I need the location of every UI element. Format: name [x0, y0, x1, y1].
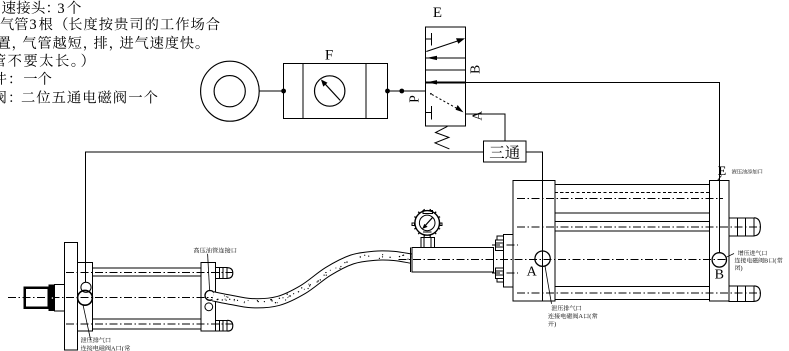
rear end block inner line: [84, 263, 86, 283]
left cylinder bottom tie-rod centerline: [66, 323, 233, 325]
wire tee to left cylinder rear port: [85, 152, 483, 282]
hose stipple texture: [217, 254, 409, 303]
svg-text:A: A: [470, 111, 485, 121]
wire F to valve port P: [388, 90, 426, 92]
left cylinder centerline: [8, 297, 225, 299]
pump gauge top cap: [423, 211, 433, 214]
pump gauge needle head: [422, 224, 427, 229]
tiny label A port line2: [548, 313, 597, 320]
F gauge needle arrowhead: [321, 79, 328, 86]
rear port main circle: [78, 290, 93, 305]
left cylinder lower tie-rod end fitting: [215, 320, 227, 331]
right cylinder body bottom: [555, 298, 710, 300]
hydraulic hose outline: [213, 255, 411, 303]
flange top bolt: [496, 240, 504, 251]
compressor inner circle: [214, 76, 245, 107]
valve dashed diagonal flow arrow: [432, 94, 460, 109]
tee junction box: [483, 141, 526, 162]
svg-text:A: A: [111, 345, 116, 351]
left cylinder rod boss (solid): [49, 285, 55, 311]
F internal divider left: [302, 64, 304, 119]
wire tee to right cylinder port A: [526, 152, 542, 180]
valve top diagonal arrowhead: [456, 38, 465, 44]
valve bottom flow left arrowhead: [427, 80, 437, 84]
pump gauge needle: [425, 217, 433, 226]
filter-regulator unit F outline: [283, 64, 387, 119]
valve top horizontal left arrowhead: [427, 56, 437, 60]
leader line port B to label: [726, 254, 734, 258]
booster pump body left cap: [409, 247, 411, 272]
junction dot on P line: [399, 89, 404, 94]
right cylinder left block inner line: [542, 180, 544, 301]
F internal divider right: [365, 64, 367, 119]
note text line 4: [0, 54, 5, 67]
svg-text:(: (: [774, 258, 776, 265]
svg-text:E: E: [433, 5, 442, 21]
tiny label high-pressure hose connection: [194, 247, 237, 253]
flange plate between pump and right cylinder: [503, 235, 513, 287]
tiny label hydraulic oil fill port: [732, 169, 763, 174]
pump gauge stem: [421, 238, 435, 248]
svg-text:(: (: [122, 345, 124, 351]
left cylinder rear end block: [78, 263, 93, 332]
svg-text:F: F: [325, 48, 333, 64]
valve top blocked port symbol: [426, 33, 432, 46]
leader line port A to label: [545, 266, 552, 304]
front port circle (hose connection): [205, 291, 215, 301]
svg-text:B: B: [468, 65, 483, 74]
svg-text:(: (: [589, 313, 591, 320]
left cylinder rod section: [55, 285, 65, 311]
svg-text:P: P: [406, 95, 421, 103]
left cylinder rod end cap: [25, 288, 49, 308]
tiny label B port line3: [735, 265, 742, 272]
left cylinder upper tie-rod end fitting: [215, 268, 227, 279]
junction dot at F inlet: [281, 89, 286, 94]
right cylinder left end block: [513, 180, 555, 301]
flange top bolt centerline: [492, 244, 518, 246]
pump gauge bottom window: [423, 231, 432, 233]
F gauge needle: [325, 83, 341, 100]
leader line to front port: [208, 254, 210, 291]
tiny label relief exhaust port line2: [81, 345, 130, 351]
svg-text:3: 3: [29, 17, 36, 33]
right cylinder upper tie-rod end fitting: [729, 218, 754, 236]
svg-text:A: A: [527, 265, 538, 280]
svg-text:3: 3: [57, 1, 64, 17]
right cylinder lower wall line: [555, 286, 710, 288]
valve dashed diagonal arrowhead: [456, 105, 464, 112]
front port lower small circle: [205, 303, 213, 311]
port B circle: [712, 253, 726, 267]
flange bottom bolt centerline: [492, 272, 518, 274]
tiny label A port line1: [551, 305, 581, 311]
port A circle: [535, 251, 550, 266]
left cylinder tube top wall lines: [93, 267, 201, 269]
svg-text:E: E: [718, 164, 726, 178]
valve E position divider: [426, 69, 466, 71]
right cylinder upper tie-rod centerline: [517, 226, 762, 228]
note text line 3: [0, 36, 10, 48]
pump gauge bezel: [415, 211, 440, 236]
right cylinder inner wall lines: [555, 212, 710, 214]
valve E body: [426, 27, 466, 126]
F gauge circle: [315, 76, 345, 106]
svg-text:): ): [554, 321, 556, 328]
wire compressor to filter F: [259, 90, 283, 92]
leader line to rear port: [83, 305, 91, 340]
right cylinder upper centerline: [517, 197, 723, 199]
tiny label B port line2: [735, 258, 783, 265]
svg-text:B: B: [715, 268, 724, 283]
left cylinder front end block: [201, 263, 215, 332]
pump gauge side nubs: [412, 223, 414, 225]
tiny label B port line1: [738, 250, 767, 256]
hydraulic hose inner white: [213, 255, 411, 303]
valve top diagonal flow arrow: [426, 40, 460, 52]
note text line 1: [0, 1, 220, 104]
oil fill leader line: [718, 176, 722, 181]
valve bottom blocked port symbol: [426, 106, 432, 119]
right cylinder lower tie-rod centerline: [517, 292, 762, 294]
air source compressor circle: [201, 61, 260, 121]
left cylinder tube bottom wall lines: [93, 318, 201, 320]
junction dot at F outlet: [385, 89, 390, 94]
note text line 2: [1, 17, 14, 30]
valve bottom flow line P to B (thick): [426, 81, 466, 83]
pump gauge knurled bezel ticks: [413, 209, 442, 237]
tee box text san-tong: [490, 145, 520, 159]
left cylinder top tie-rod centerline: [66, 271, 233, 273]
svg-text:B: B: [764, 258, 768, 265]
wire valve B to right cylinder port B: [465, 82, 719, 253]
flange bottom bolt: [496, 268, 504, 279]
tiny label relief exhaust port line1: [81, 337, 111, 343]
left cylinder mounting flange: [65, 243, 78, 351]
svg-text:): ): [741, 265, 743, 272]
right cylinder hidden line: [555, 192, 710, 194]
valve return spring: [435, 126, 449, 148]
tiny label A port line3: [548, 321, 556, 328]
valve dashed diagonal arrow start dot: [430, 93, 432, 95]
svg-text:A: A: [578, 313, 583, 320]
note text line 5: [0, 72, 6, 85]
wire valve A to tee: [465, 114, 505, 141]
rod center dot: [50, 295, 55, 300]
note text line 6: [0, 90, 6, 103]
right cylinder right end block: [710, 180, 730, 301]
valve top horizontal flow line: [426, 57, 466, 59]
rear port small circle: [81, 282, 91, 292]
pump gauge dial: [419, 215, 435, 231]
main centerline through pump and right cylinder: [399, 258, 728, 260]
booster pump body: [412, 247, 494, 272]
right cylinder lower tie-rod end fitting: [729, 286, 754, 301]
right cylinder body top: [555, 184, 710, 186]
